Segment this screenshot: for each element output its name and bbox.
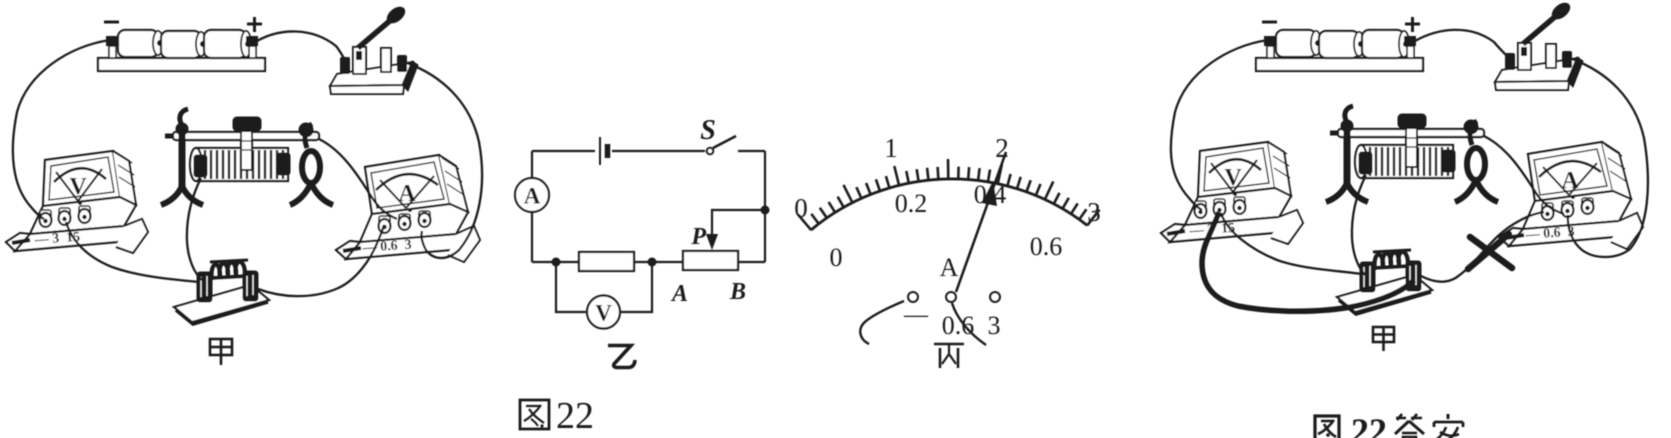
wire resistor to left corner — [532, 261, 579, 263]
battery BT1 — [98, 17, 265, 71]
node junction dot — [761, 206, 770, 215]
switch blade — [713, 136, 736, 148]
svg-text:A: A — [670, 281, 688, 307]
wire voltmeter middle terminal to resistor board — [66, 222, 199, 282]
switch S pivot — [707, 148, 713, 154]
wire rheostat left post to resistor board — [187, 178, 202, 280]
svg-text:1: 1 — [884, 133, 898, 163]
wire switch to right corner — [738, 150, 765, 152]
wire switch to ammeter right terminal (outer loop) — [407, 63, 482, 258]
wire left vertical — [531, 151, 533, 262]
svg-text:0: 0 — [794, 193, 808, 223]
rheostat R1 — [161, 109, 333, 205]
voltmeter V2 — [1161, 142, 1303, 244]
svg-text:3: 3 — [988, 311, 1001, 340]
svg-text:22: 22 — [1351, 411, 1387, 438]
scale ticks — [798, 159, 1099, 230]
svg-text:3: 3 — [1087, 197, 1101, 227]
node dot right — [648, 258, 657, 267]
wire voltmeter branch right — [620, 262, 652, 312]
glyph da (answer, cut at bottom) — [1396, 414, 1406, 420]
wire battery+ to switch (right) — [1415, 30, 1507, 56]
wire voltmeter branch left — [556, 262, 587, 312]
terminal 3 — [990, 292, 1000, 302]
svg-text:0.4: 0.4 — [974, 180, 1007, 209]
svg-text:V: V — [595, 301, 612, 326]
resistor board R2 — [174, 260, 269, 324]
wire battery- to voltmeter — [13, 40, 110, 219]
switch S1 — [330, 4, 418, 94]
battery BT2 — [1256, 17, 1423, 71]
svg-text:A: A — [940, 253, 959, 282]
label yi — [608, 346, 635, 368]
needle — [956, 152, 1006, 292]
answer wire: voltmeter to resistor right post (thick) — [1202, 212, 1414, 311]
wire rheostat slider rail to ammeter middle terminal (right) — [1484, 136, 1564, 214]
slider arrow P — [706, 234, 718, 250]
wire resistor board to ammeter left terminal through X (right) — [1421, 212, 1544, 282]
svg-text:2: 2 — [995, 133, 1009, 163]
wire rheostat to right corner — [738, 261, 765, 263]
wire tap from junction to slider — [712, 210, 765, 234]
wire voltmeter middle terminal to resistor board (right) — [1221, 213, 1362, 274]
terminal 0.6 — [946, 292, 956, 302]
voltmeter V1 circle — [587, 296, 620, 329]
wire top left — [532, 150, 595, 152]
terminal minus — [908, 292, 918, 302]
wire battery to switch — [612, 150, 705, 152]
svg-text:S: S — [700, 115, 716, 146]
wire resistor board to ammeter left terminal — [258, 225, 384, 296]
svg-text:0.2: 0.2 — [895, 189, 928, 218]
lead wire squiggle — [860, 301, 904, 344]
resistor board R4 — [1337, 250, 1432, 314]
svg-text:—: — — [903, 302, 929, 328]
svg-text:22: 22 — [556, 395, 594, 437]
ammeter A2 — [1499, 142, 1643, 249]
rheostat box — [683, 251, 738, 270]
caption tu 22 (left) — [520, 400, 549, 429]
caption tu 22 answer (bold) — [1315, 416, 1339, 438]
lead wire right — [952, 303, 986, 345]
svg-text:0.6: 0.6 — [1030, 232, 1063, 261]
label jia (left) — [210, 339, 232, 365]
resistor box — [579, 252, 634, 271]
svg-text:0: 0 — [830, 243, 843, 272]
node dot left — [552, 258, 561, 267]
meter arc — [811, 179, 1087, 230]
wire rheostat slider rail to ammeter middle terminal — [319, 139, 397, 219]
wire battery- to voltmeter (right) — [1171, 40, 1268, 210]
switch S2 — [1495, 0, 1583, 90]
ammeter A1 — [336, 155, 480, 262]
wire rheostat to resistor — [634, 261, 683, 263]
glyph an (answer, cut at bottom) — [1447, 414, 1450, 419]
glyph tu (bold, cut at bottom) — [1315, 416, 1339, 438]
svg-text:B: B — [729, 279, 746, 305]
label jia (right) — [1373, 327, 1394, 351]
ammeter A1 circle — [515, 178, 549, 212]
X cross-out mark — [1468, 234, 1512, 269]
label bing — [934, 344, 964, 368]
rheostat R3 — [1326, 106, 1498, 202]
svg-text:P: P — [690, 224, 706, 250]
wire switch to ammeter right terminal (outer loop, right) — [1568, 59, 1648, 257]
voltmeter V1 — [6, 151, 148, 253]
battery cell — [599, 137, 601, 165]
svg-text:A: A — [524, 184, 541, 209]
wire battery+ to switch — [257, 31, 345, 60]
wire right vertical — [764, 151, 766, 262]
wire rheostat left post to resistor board (right) — [1352, 175, 1366, 275]
